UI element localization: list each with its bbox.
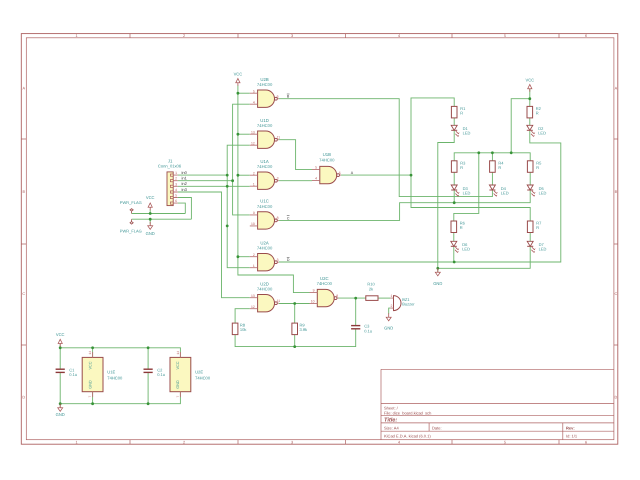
svg-text:U2B: U2B bbox=[260, 77, 268, 82]
wire in1 from J1 pin2 bbox=[178, 180, 233, 182]
svg-text:Size: A4: Size: A4 bbox=[384, 426, 399, 431]
wire U1D output to U1B pin5 bbox=[279, 140, 312, 170]
wire U2B output net B to D4 bbox=[279, 99, 493, 197]
svg-text:VCC: VCC bbox=[88, 361, 92, 369]
wire V3 stub to U2A.2 bbox=[238, 256, 250, 258]
svg-text:B: B bbox=[615, 190, 618, 194]
wire bus V3 VCC to U2C.9 bbox=[238, 85, 310, 292]
wire mid rail R3 R4 R5 tops bbox=[454, 153, 530, 161]
svg-text:6: 6 bbox=[175, 199, 177, 203]
svg-text:PWR_FLAG: PWR_FLAG bbox=[120, 200, 142, 205]
svg-text:74HC00: 74HC00 bbox=[257, 287, 273, 292]
wire C1 top stub bbox=[59, 348, 61, 369]
svg-text:Id: 1/1: Id: 1/1 bbox=[566, 434, 578, 439]
svg-text:U1A: U1A bbox=[260, 159, 268, 164]
wire VCC rail left bbox=[132, 213, 186, 215]
wire V3 stub to U1A.2 bbox=[238, 174, 250, 176]
wire U1A output to U1B pin4 bbox=[279, 180, 312, 182]
svg-text:LED: LED bbox=[538, 131, 546, 136]
svg-text:12: 12 bbox=[251, 141, 255, 145]
svg-text:LED: LED bbox=[501, 190, 509, 195]
svg-text:74HC00: 74HC00 bbox=[257, 204, 273, 209]
capacitor C2 bbox=[144, 367, 165, 377]
NAND gate U1B bbox=[312, 152, 341, 184]
junction VCC3 at R2 bbox=[528, 97, 531, 100]
LED D5 bbox=[527, 185, 546, 196]
svg-text:1: 1 bbox=[175, 171, 177, 175]
svg-text:4: 4 bbox=[253, 100, 255, 104]
wire GND rail left bbox=[132, 218, 192, 220]
junction net D rail at D6 bbox=[453, 261, 456, 264]
junction net C at D3 bbox=[453, 201, 456, 204]
svg-text:D: D bbox=[287, 258, 290, 262]
power symbol VCC left bbox=[146, 195, 155, 210]
svg-text:GND: GND bbox=[384, 326, 393, 331]
wire bottom rail R8 R9 C3 bbox=[235, 329, 356, 347]
wire U1B output net A bbox=[341, 174, 411, 176]
svg-text:74HC00: 74HC00 bbox=[317, 281, 333, 286]
svg-text:U1B: U1B bbox=[323, 152, 331, 157]
svg-text:GND: GND bbox=[56, 412, 65, 417]
svg-text:14: 14 bbox=[176, 351, 180, 355]
svg-text:in1: in1 bbox=[182, 176, 188, 181]
wire power block bottom rail bbox=[60, 373, 180, 404]
resistor R1 bbox=[451, 106, 466, 118]
svg-text:7: 7 bbox=[88, 395, 92, 397]
svg-text:4: 4 bbox=[398, 440, 400, 444]
junction V3 U2B.5 bbox=[237, 92, 240, 95]
resistor R9 bbox=[292, 323, 307, 335]
power symbol VCC power block bbox=[56, 332, 65, 346]
wire bus V1 U1D.12 to U2A.1 bbox=[227, 145, 250, 268]
svg-text:C: C bbox=[287, 216, 290, 220]
junction U2D output at R9 bbox=[293, 302, 296, 305]
svg-text:5: 5 bbox=[504, 34, 506, 38]
svg-text:1: 1 bbox=[75, 34, 77, 38]
svg-text:GND: GND bbox=[176, 380, 180, 389]
svg-text:1: 1 bbox=[391, 294, 393, 298]
wire V3 stub to U2B.5 bbox=[238, 92, 250, 94]
wire GND rail right with D7 cathode bbox=[438, 246, 530, 268]
svg-text:R: R bbox=[460, 110, 463, 115]
row tick marks right bbox=[614, 139, 618, 345]
resistor R10 bbox=[366, 281, 378, 300]
svg-text:VCC: VCC bbox=[146, 195, 155, 200]
NAND gate U1D bbox=[250, 118, 280, 149]
wire net A vertical to R1 and R7 bbox=[411, 98, 530, 221]
svg-text:LED: LED bbox=[462, 247, 470, 252]
wire R4 top stub bbox=[491, 153, 493, 161]
svg-text:1: 1 bbox=[253, 264, 255, 268]
svg-text:VCC: VCC bbox=[234, 71, 243, 76]
junction mid rail at VCC branch bbox=[510, 151, 513, 154]
svg-text:LED: LED bbox=[539, 247, 547, 252]
power symbol GND power block bbox=[56, 404, 65, 417]
row tick marks left bbox=[21, 139, 26, 345]
wire R4 to D4 bbox=[491, 172, 493, 185]
wire C2 bottom stub bbox=[147, 373, 149, 404]
wire U2D output to U2C pin10 bbox=[279, 303, 310, 305]
svg-text:in0: in0 bbox=[182, 170, 188, 175]
svg-text:4: 4 bbox=[175, 188, 177, 192]
svg-text:2: 2 bbox=[253, 253, 255, 257]
svg-text:U1E: U1E bbox=[107, 370, 115, 375]
junction power bottom rail at GND4 bbox=[59, 402, 62, 405]
wire in3 from J1 pin4 to U2D pin13 bbox=[178, 192, 250, 298]
resistor R8 bbox=[232, 323, 246, 335]
svg-text:VCC: VCC bbox=[176, 361, 180, 369]
junction net A at U1B output bbox=[410, 174, 413, 177]
svg-text:2: 2 bbox=[183, 440, 185, 444]
svg-text:0.1u: 0.1u bbox=[157, 372, 165, 377]
svg-text:C: C bbox=[22, 292, 25, 296]
svg-text:GND: GND bbox=[146, 231, 155, 236]
svg-text:VCC: VCC bbox=[525, 77, 534, 82]
svg-text:4: 4 bbox=[315, 177, 317, 181]
power unit U2E bbox=[170, 351, 211, 398]
svg-text:0.1u: 0.1u bbox=[69, 372, 77, 377]
svg-text:5: 5 bbox=[175, 194, 177, 198]
svg-text:74HC00: 74HC00 bbox=[195, 375, 211, 380]
svg-text:D: D bbox=[615, 396, 618, 400]
wire D6 cathode to net D rail bbox=[453, 246, 455, 262]
wire R3 to D3 bbox=[453, 172, 455, 185]
PWR_FLAG on VCC rail bbox=[120, 200, 142, 214]
svg-text:10k: 10k bbox=[240, 327, 246, 332]
svg-text:10: 10 bbox=[251, 222, 255, 226]
wire R1 to D1 bbox=[453, 118, 455, 125]
column tick marks bottom bbox=[130, 440, 559, 445]
svg-text:8: 8 bbox=[336, 294, 338, 298]
wire R10 to BZ1 bbox=[378, 297, 390, 299]
svg-text:Buzzer: Buzzer bbox=[402, 302, 415, 307]
svg-text:74HC00: 74HC00 bbox=[107, 375, 123, 380]
svg-text:Conn_01x06: Conn_01x06 bbox=[158, 164, 182, 169]
svg-text:LED: LED bbox=[463, 190, 471, 195]
wire R9 stem bbox=[294, 304, 296, 324]
wire R9 bottom stub bbox=[294, 335, 296, 347]
svg-text:6: 6 bbox=[339, 171, 341, 175]
column tick marks top bbox=[130, 34, 559, 38]
svg-text:A: A bbox=[23, 87, 26, 91]
svg-text:5: 5 bbox=[315, 166, 317, 170]
wire J1 pin5 to GND rail bbox=[178, 198, 192, 220]
resistor R2 bbox=[527, 106, 542, 118]
svg-text:R: R bbox=[536, 165, 539, 170]
svg-text:1: 1 bbox=[75, 440, 77, 444]
junction power bottom rail at C2 bbox=[147, 402, 150, 405]
svg-text:GND: GND bbox=[433, 281, 442, 286]
svg-text:LED: LED bbox=[463, 131, 471, 136]
svg-text:2: 2 bbox=[183, 34, 185, 38]
wire U1E pin14 stub bbox=[92, 348, 94, 358]
junction in1 on V2 bbox=[231, 179, 234, 182]
svg-text:3: 3 bbox=[291, 34, 293, 38]
wire mid rail feed to R6 bbox=[454, 153, 479, 221]
svg-text:U2A: U2A bbox=[260, 240, 268, 245]
power symbol GND right bbox=[433, 268, 442, 286]
svg-text:R: R bbox=[460, 165, 463, 170]
junction U1C.10 on V1 bbox=[226, 225, 229, 228]
NAND gate U2D bbox=[250, 281, 280, 312]
svg-text:13: 13 bbox=[251, 130, 255, 134]
wire VCC1 stem bbox=[149, 210, 151, 214]
resistor R3 bbox=[451, 160, 466, 172]
wire GND1 stem bbox=[149, 219, 151, 224]
junction GND rail right at GND3 bbox=[436, 267, 439, 270]
svg-text:2: 2 bbox=[391, 304, 393, 308]
svg-text:74HC00: 74HC00 bbox=[257, 123, 273, 128]
svg-text:R: R bbox=[536, 110, 539, 115]
svg-text:74HC00: 74HC00 bbox=[257, 82, 273, 87]
svg-text:13: 13 bbox=[251, 294, 255, 298]
resistor R6 bbox=[451, 221, 466, 233]
svg-text:9: 9 bbox=[253, 211, 255, 215]
title block dividers bbox=[429, 423, 563, 440]
junction in0 on V1 bbox=[226, 174, 229, 177]
resistor R7 bbox=[527, 221, 542, 233]
junction power top rail at C2 bbox=[147, 346, 150, 349]
svg-text:U1C: U1C bbox=[260, 199, 269, 204]
junction bottom rail at R9 bbox=[293, 345, 296, 348]
wire R6 to D6 bbox=[453, 233, 455, 242]
svg-text:A: A bbox=[615, 87, 618, 91]
svg-text:R: R bbox=[536, 225, 539, 230]
svg-text:2k: 2k bbox=[369, 286, 373, 291]
wire U1E pin7 stub bbox=[92, 392, 94, 404]
svg-text:Date:: Date: bbox=[432, 426, 442, 431]
wire bus V2 U2B.4 to U1C.9 bbox=[233, 104, 250, 215]
svg-text:74HC00: 74HC00 bbox=[257, 164, 273, 169]
TEXTS bbox=[182, 94, 354, 262]
wire V3 stub to U1D.13 bbox=[238, 133, 250, 135]
svg-text:C: C bbox=[615, 292, 618, 296]
wire VCC3 branch to mid rail bbox=[511, 99, 530, 153]
svg-text:0.1u: 0.1u bbox=[364, 328, 372, 333]
svg-text:File: dice_board.kicad_sch: File: dice_board.kicad_sch bbox=[384, 410, 431, 415]
svg-text:Rev:: Rev: bbox=[566, 426, 575, 431]
NAND gate U2A bbox=[250, 240, 279, 271]
svg-text:R: R bbox=[498, 165, 501, 170]
svg-text:U2E: U2E bbox=[195, 370, 203, 375]
svg-text:LED: LED bbox=[539, 190, 547, 195]
junction V3 U2A.2 bbox=[237, 255, 240, 258]
svg-text:6: 6 bbox=[585, 34, 587, 38]
junction in2 on V1 bbox=[226, 185, 229, 188]
NAND gate U2C bbox=[310, 276, 339, 307]
junction power top rail at VCC4 bbox=[59, 346, 62, 349]
sheet outer border bbox=[21, 34, 618, 445]
junction GND rail at GND1 bbox=[149, 218, 152, 221]
wire U2D pin12 to R8 bbox=[235, 309, 250, 323]
svg-text:1: 1 bbox=[253, 182, 255, 186]
wire R2 to D2 bbox=[529, 118, 531, 125]
svg-text:14: 14 bbox=[88, 351, 92, 355]
svg-text:U1D: U1D bbox=[260, 118, 269, 123]
junction V3 U1A.2 bbox=[237, 174, 240, 177]
buzzer BZ1 bbox=[390, 294, 415, 311]
svg-text:3: 3 bbox=[291, 440, 293, 444]
wire BZ1 pin2 to GND2 bbox=[389, 308, 391, 314]
svg-text:R: R bbox=[460, 225, 463, 230]
svg-text:7: 7 bbox=[176, 395, 180, 397]
svg-text:11: 11 bbox=[277, 136, 281, 140]
svg-text:6: 6 bbox=[585, 440, 587, 444]
svg-text:D: D bbox=[22, 396, 25, 400]
svg-text:3.9k: 3.9k bbox=[300, 327, 308, 332]
junction U2C output at C3 bbox=[354, 297, 357, 300]
wire R7 to D7 bbox=[529, 233, 531, 242]
resistor R4 bbox=[490, 160, 505, 172]
svg-text:2: 2 bbox=[253, 171, 255, 175]
LED D4 bbox=[489, 185, 508, 196]
svg-text:3: 3 bbox=[277, 177, 279, 181]
svg-text:4: 4 bbox=[398, 34, 400, 38]
LED D2 bbox=[527, 125, 546, 136]
wire GND4 stem bbox=[59, 404, 61, 407]
svg-text:in3: in3 bbox=[182, 187, 188, 192]
power symbol GND buzzer bbox=[384, 313, 393, 331]
svg-text:Title:: Title: bbox=[384, 417, 397, 424]
wire power block top rail bbox=[60, 344, 180, 357]
NAND gate U2B bbox=[250, 77, 279, 108]
svg-text:in2: in2 bbox=[182, 181, 188, 186]
junction power top rail at U1E bbox=[91, 346, 94, 349]
LED D6 bbox=[451, 241, 470, 252]
TITLEBLOCK bbox=[381, 369, 614, 439]
PWR_FLAG on GND rail bbox=[120, 219, 142, 233]
wire D1 cathode to GND3 bbox=[438, 130, 454, 273]
power symbol VCC mid bbox=[234, 71, 243, 85]
wire C3 stem bbox=[355, 298, 357, 326]
wire in0 from J1 pin1 bbox=[178, 174, 227, 176]
junction mid rail at R4 bbox=[491, 151, 494, 154]
LED D1 bbox=[451, 125, 470, 136]
sheet inner border bbox=[26, 38, 614, 440]
svg-text:10: 10 bbox=[311, 300, 315, 304]
junction V3 U1D.13 bbox=[237, 133, 240, 136]
title block outline bbox=[381, 369, 614, 439]
wire in2 from J1 pin3 to U1A pin1 bbox=[178, 185, 250, 187]
wire C2 top stub bbox=[147, 348, 149, 369]
wire J1 pin6 to VCC rail bbox=[178, 203, 186, 213]
NAND gate U1A bbox=[250, 159, 279, 190]
NAND gate U1C bbox=[250, 199, 279, 230]
capacitor C3 bbox=[351, 324, 372, 334]
capacitor C1 bbox=[56, 367, 77, 377]
connector J1 bbox=[158, 159, 182, 206]
svg-text:GND: GND bbox=[88, 380, 92, 389]
svg-text:U2D: U2D bbox=[260, 281, 269, 286]
junction VCC rail at VCC1 bbox=[149, 212, 152, 215]
wire U1C output net C to D5 bbox=[279, 190, 530, 220]
svg-text:VCC: VCC bbox=[56, 332, 65, 337]
resistor R5 bbox=[527, 160, 542, 172]
wire VCC3 stem to R2 bbox=[529, 89, 531, 106]
svg-text:12: 12 bbox=[251, 305, 255, 309]
svg-text:2: 2 bbox=[175, 177, 177, 181]
svg-text:6: 6 bbox=[277, 95, 279, 99]
wire D3 cathode stub bbox=[453, 190, 455, 202]
svg-text:PWR_FLAG: PWR_FLAG bbox=[120, 228, 142, 233]
svg-text:8: 8 bbox=[277, 216, 279, 220]
svg-text:11: 11 bbox=[277, 299, 281, 303]
title block row lines bbox=[381, 404, 614, 432]
power symbol GND left bbox=[146, 222, 155, 236]
svg-text:74HC00: 74HC00 bbox=[257, 246, 273, 251]
svg-text:5: 5 bbox=[504, 440, 506, 444]
svg-text:5: 5 bbox=[253, 89, 255, 93]
svg-text:9: 9 bbox=[313, 289, 315, 293]
junction mid rail at R6 feed bbox=[477, 151, 480, 154]
svg-text:3: 3 bbox=[277, 258, 279, 262]
power symbol VCC right bbox=[525, 77, 534, 91]
svg-text:74HC00: 74HC00 bbox=[319, 158, 335, 163]
wire U2A output net D rail bbox=[279, 131, 561, 262]
svg-text:KiCad E.D.A. kicad (6.0.1): KiCad E.D.A. kicad (6.0.1) bbox=[384, 434, 431, 439]
junction power bottom rail at U1E bbox=[91, 402, 94, 405]
svg-text:B: B bbox=[23, 190, 26, 194]
LED D3 bbox=[451, 185, 470, 196]
power unit U1E bbox=[82, 351, 123, 398]
wire R5 to D5 bbox=[529, 172, 531, 185]
svg-text:3: 3 bbox=[175, 182, 177, 186]
wire U2C output to R10 bbox=[338, 297, 366, 299]
svg-text:U2C: U2C bbox=[320, 276, 329, 281]
LED D7 bbox=[527, 241, 546, 252]
